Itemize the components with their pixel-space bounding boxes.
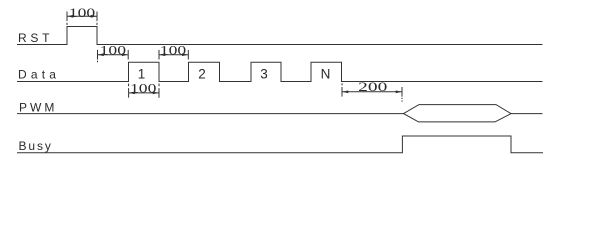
dimension D5 extension dashes [342, 83, 402, 102]
PWM bus valid hexagon [404, 105, 512, 122]
wire RST waveform [17, 27, 543, 45]
svg-text:100: 100 [130, 81, 156, 95]
dimension D2 100 (RST fall to Data pulse 1) [98, 43, 129, 59]
svg-text:Busy: Busy [19, 139, 53, 153]
svg-text:100: 100 [160, 43, 186, 57]
svg-text:100: 100 [69, 6, 95, 20]
svg-text:3: 3 [260, 67, 268, 82]
dimension D3 100 (Data pulse 1 fall to pulse 2 rise) [159, 43, 188, 59]
svg-text:100: 100 [100, 43, 126, 57]
svg-text:1: 1 [138, 67, 146, 82]
svg-text:2: 2 [198, 67, 206, 82]
signal label RST [18, 31, 53, 45]
wire PWM line right [511, 113, 543, 115]
wire Data waveform [17, 62, 543, 81]
svg-text:200: 200 [358, 80, 387, 94]
wire Busy waveform [17, 136, 543, 153]
svg-text:N: N [321, 67, 331, 82]
dimension D1 100 (RST pulse width) [67, 6, 97, 21]
data pulse label N [321, 67, 331, 82]
dimension D5 200 (Data N fall to PWM/Busy start) [342, 80, 402, 97]
dimension D1 extension dashes [67, 23, 97, 25]
svg-text:Data: Data [18, 68, 60, 82]
signal label PWM [19, 101, 57, 115]
svg-text:RST: RST [18, 31, 53, 45]
signal label Busy [19, 139, 53, 153]
dimension D4 100 (Data pulse 1 width) [129, 81, 159, 97]
dimension D2 extension dash [97, 61, 99, 63]
signal label Data [18, 68, 60, 82]
data pulse label 2 [198, 67, 206, 82]
wire PWM line left [17, 113, 404, 115]
svg-text:PWM: PWM [19, 101, 57, 115]
data pulse label 3 [260, 67, 268, 82]
dimension D4 extension dashes [129, 84, 159, 87]
data pulse label 1 [138, 67, 146, 82]
